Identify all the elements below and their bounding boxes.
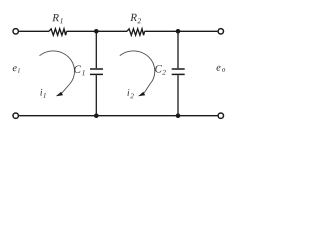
- terminal: output bottom-right: [218, 113, 223, 118]
- capacitor C1: plates: [90, 69, 103, 74]
- label ei (input voltage): [13, 66, 20, 72]
- label R2: [130, 14, 141, 23]
- wire: top rail, R1 to node A: [67, 30, 127, 32]
- label C2: [155, 65, 166, 75]
- terminal: input bottom-left: [13, 113, 18, 118]
- node A: junction dot (top of C1): [94, 29, 99, 34]
- mesh current arrow i2: [120, 51, 155, 96]
- label R1: [52, 14, 62, 23]
- terminal: input top-left: [13, 29, 18, 34]
- label i2: [127, 89, 133, 98]
- capacitor C1: bottom lead: [95, 75, 97, 116]
- wire: bottom rail: [19, 115, 217, 117]
- label C1: [74, 66, 84, 76]
- node D: junction dot (bottom of C2): [176, 113, 181, 118]
- node B: junction dot (top of C2): [176, 29, 181, 34]
- label i1: [40, 89, 45, 98]
- label eo (output voltage): [217, 66, 226, 72]
- resistor R2: [127, 29, 145, 35]
- capacitor C2: bottom lead: [177, 75, 179, 116]
- resistor R1: [49, 29, 67, 35]
- wire: top rail, terminal to R1: [19, 30, 49, 32]
- capacitor C1: top lead: [95, 31, 97, 68]
- wire: top rail, R2 to output terminal: [145, 30, 218, 32]
- node C: junction dot (bottom of C1): [94, 113, 99, 118]
- terminal: output top-right: [218, 29, 223, 34]
- capacitor C2: plates: [172, 69, 185, 74]
- capacitor C2: top lead: [177, 31, 179, 68]
- mesh current arrow i1: [40, 51, 75, 96]
